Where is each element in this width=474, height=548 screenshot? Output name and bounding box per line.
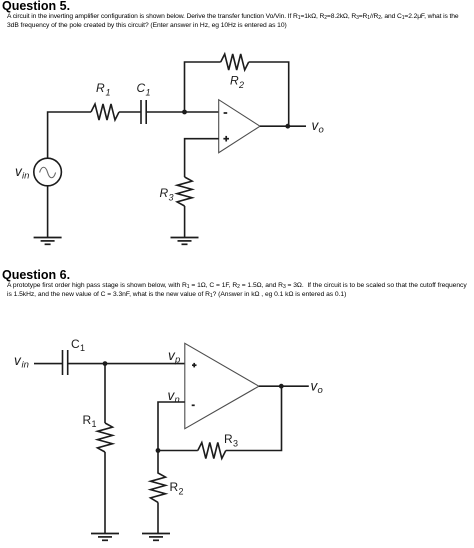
label vn bbox=[168, 388, 180, 406]
svg-text:1: 1 bbox=[80, 343, 85, 353]
label R1 bbox=[96, 81, 111, 98]
junction node input bbox=[103, 361, 108, 366]
label R3b bbox=[224, 432, 238, 449]
junction node output2 bbox=[279, 384, 284, 389]
Question 6 heading bbox=[2, 268, 70, 282]
label R3 bbox=[160, 186, 174, 203]
svg-text:R: R bbox=[170, 480, 179, 494]
svg-text:R: R bbox=[224, 432, 233, 446]
Question 6 body line 2 bbox=[7, 291, 346, 298]
source Vin sine symbol bbox=[40, 167, 56, 178]
wire junction to R3b bbox=[158, 450, 198, 452]
Question 5 heading bbox=[2, 0, 70, 13]
op-amp U1 minus sign bbox=[224, 112, 228, 114]
svg-text:1: 1 bbox=[146, 88, 151, 98]
wire op-amp output to vo2 bbox=[259, 385, 309, 387]
label R2 bbox=[230, 74, 244, 91]
svg-text:1: 1 bbox=[106, 88, 111, 98]
label R1b bbox=[83, 413, 97, 429]
wire R1b to ground bbox=[104, 452, 106, 533]
svg-text:2: 2 bbox=[238, 80, 244, 90]
wire vin to C1b bbox=[34, 363, 63, 365]
wire junction to R1b bbox=[104, 364, 106, 423]
svg-text:C: C bbox=[137, 81, 146, 95]
svg-text:R: R bbox=[96, 81, 105, 95]
svg-text:n: n bbox=[175, 395, 180, 406]
op-amp U2 plus sign bbox=[192, 363, 197, 368]
wire feedback right vertical to output bbox=[249, 62, 289, 126]
label vin2 bbox=[14, 353, 29, 370]
Question 5 body line 1 bbox=[7, 13, 459, 20]
wire R3b to output junction bbox=[226, 386, 282, 450]
resistor R3 bbox=[177, 177, 192, 206]
wire op-amp minus input down to feedback junction bbox=[158, 402, 185, 451]
ground under R3 bbox=[171, 238, 199, 245]
wire R3 to ground bbox=[184, 206, 186, 237]
svg-text:o: o bbox=[319, 125, 324, 136]
wire op-amp output to vo bbox=[260, 125, 306, 127]
svg-text:3: 3 bbox=[233, 439, 238, 449]
junction node at output bbox=[285, 124, 290, 129]
svg-text:p: p bbox=[174, 355, 180, 366]
wire Vin to ground bbox=[47, 186, 49, 237]
svg-text:1: 1 bbox=[92, 419, 97, 429]
capacitor C1 bbox=[141, 100, 146, 124]
label vo bbox=[312, 118, 324, 136]
svg-text:R: R bbox=[160, 186, 169, 200]
svg-text:R: R bbox=[83, 413, 92, 427]
ground under R2b bbox=[142, 534, 170, 541]
wire R1 to C1 bbox=[119, 111, 141, 113]
junction node at inverting input bbox=[182, 110, 187, 115]
source Vin bbox=[34, 158, 62, 186]
wire C1 to op-amp inverting input bbox=[146, 111, 219, 113]
op-amp U2 bbox=[185, 343, 259, 428]
label vp bbox=[168, 348, 180, 366]
Question 5 body line 2 bbox=[7, 22, 287, 29]
svg-text:C: C bbox=[71, 337, 80, 351]
svg-text:3: 3 bbox=[169, 193, 174, 203]
junction node feedback bbox=[156, 448, 161, 453]
op-amp U1 bbox=[219, 100, 260, 153]
resistor R2 bbox=[221, 54, 249, 70]
ground under R1b bbox=[91, 534, 119, 541]
wire feedback left vertical bbox=[185, 62, 221, 112]
op-amp U1 plus sign bbox=[223, 136, 229, 142]
svg-text:in: in bbox=[22, 171, 29, 182]
resistor R1b bbox=[98, 423, 113, 452]
Question 6 body line 1 bbox=[7, 282, 467, 289]
label R2b bbox=[170, 480, 184, 497]
capacitor C1b bbox=[63, 350, 68, 375]
svg-text:o: o bbox=[318, 385, 323, 396]
label C1 bbox=[137, 81, 151, 98]
label C1b bbox=[71, 337, 85, 353]
resistor R2b bbox=[151, 451, 166, 503]
wire from Vin top to R1 bbox=[48, 112, 91, 158]
label vo2 bbox=[311, 379, 323, 397]
svg-text:in: in bbox=[22, 359, 29, 370]
svg-text:2: 2 bbox=[179, 487, 184, 497]
ground under Vin bbox=[34, 238, 62, 245]
resistor R1 bbox=[91, 104, 119, 120]
op-amp U2 minus sign bbox=[192, 404, 195, 406]
wire op-amp plus input to R3 bbox=[185, 139, 219, 177]
svg-text:R: R bbox=[230, 74, 239, 88]
wire R2b to ground bbox=[157, 502, 159, 533]
wire C1b to op-amp plus input bbox=[68, 363, 185, 365]
resistor R3b bbox=[198, 443, 226, 459]
label vin bbox=[15, 164, 29, 182]
